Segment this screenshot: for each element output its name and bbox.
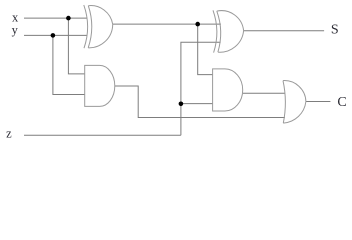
wire y input to XOR1 <box>24 34 87 36</box>
junction dot on x wire <box>66 16 71 21</box>
junction dot on w wire <box>195 22 200 27</box>
wire w drop to AND2 upper input <box>198 24 213 75</box>
or-gate U5 body <box>283 81 306 124</box>
and-gate U3 (x AND y) <box>85 65 115 106</box>
xor-gate U2 (sum S) back arc <box>213 10 217 52</box>
wire z rise to XOR2 lower input <box>181 42 221 135</box>
svg-text:C: C <box>337 95 346 110</box>
junction dot on z rise <box>179 102 184 107</box>
wire AND1 output to OR lower input <box>115 86 285 118</box>
xor-gate U2 body <box>217 11 244 53</box>
junction dot on y wire <box>51 33 56 38</box>
svg-text:y: y <box>12 23 19 37</box>
wire XOR1 output to XOR2 upper input <box>113 23 221 25</box>
wire S output <box>244 30 325 32</box>
and-gate U4 (w AND z) <box>213 69 243 111</box>
wire y drop to AND1 lower input <box>53 35 85 94</box>
wire z branch to AND2 lower input <box>181 103 213 105</box>
wire AND2 output to OR upper input <box>243 92 285 94</box>
svg-text:z: z <box>6 127 12 141</box>
xor-gate U1 (x XOR y) back arc <box>84 5 88 48</box>
or-gate U5 (carry C) back edge <box>283 81 285 124</box>
wire x input to XOR1 <box>24 17 87 19</box>
wire C output <box>306 101 331 103</box>
wire x drop to AND1 upper input <box>68 18 84 74</box>
wire z input run <box>24 134 181 136</box>
xor-gate U1 body <box>88 6 113 48</box>
svg-text:S: S <box>331 23 339 38</box>
